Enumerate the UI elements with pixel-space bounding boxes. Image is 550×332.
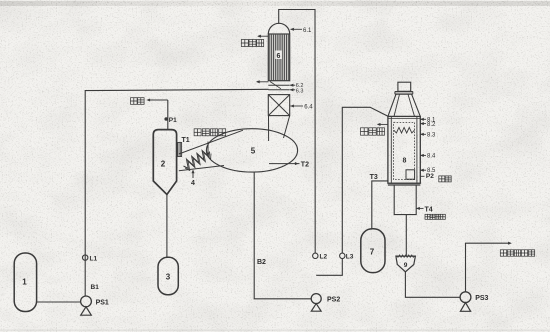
exchanger 6 bottom head bands [268,82,289,90]
tank 3 [158,257,178,294]
wire coil duct lower wall [179,166,224,171]
nozzle 8.4 pointer [420,154,436,160]
coil 4 (flexible connector) [184,150,212,170]
svg-text:2: 2 [161,160,166,169]
vessel 2 (crystallizer) [153,130,176,195]
nozzle 8.2 pointer [420,122,436,128]
wire pump PS3 outlet [466,242,512,292]
node B1 [91,284,100,291]
exchanger 6 body (tube bundle) [268,34,289,81]
wire PS1 riser and top header to exchanger 6 [85,89,268,296]
svg-text:B2: B2 [257,259,266,266]
wire vessel 8 side outlet to tank 7 [372,181,388,229]
wire vessel 2 bottom to tank 3 [166,195,168,258]
wire vessel 5 bottom to pump PS2 [254,172,311,299]
svg-text:T3: T3 [370,174,378,181]
svg-text:T2: T2 [301,161,309,168]
svg-text:P1: P1 [169,117,177,124]
svg-text:5: 5 [251,146,256,155]
svg-text:3: 3 [166,273,171,282]
valve L3 [340,253,354,260]
nozzle 6.3 [290,89,303,95]
pump PS2 [311,294,340,312]
label vacuum (top left) [131,98,145,105]
exchanger 6 dome head [268,23,289,34]
wire tank1 outlet to pump PS1 [37,301,81,303]
svg-text:8.4: 8.4 [427,154,436,160]
svg-text:7: 7 [370,248,375,257]
distributor zigzag in vessel 8 [394,127,415,133]
nozzle 6.4 pointer [291,105,314,111]
svg-text:4: 4 [191,180,195,187]
label heat transfer oil (left of 6) [241,40,263,47]
wire valve L3 down to pump PS2 [316,258,342,275]
nozzle 8.5 pointer [420,168,436,174]
nozzle 6 side outlet arrow [257,81,269,83]
svg-text:8: 8 [403,158,407,165]
svg-text:6.1: 6.1 [303,28,312,34]
mixer section 6.4 of exchanger 6 [268,95,289,116]
heat-oil nozzle of 8 [378,123,388,125]
node B2 [257,259,266,266]
nozzle 8.1 pointer [420,118,436,124]
tank 7 [361,229,385,273]
nozzle 6.2 [290,83,303,89]
label heat transfer oil (left of 8) [361,128,385,135]
svg-text:T1: T1 [182,137,190,144]
tank 1 (raw material tank) [14,253,36,312]
node P2 pointer [420,173,434,180]
granulator 9 [396,255,416,272]
svg-text:PS2: PS2 [327,296,340,303]
wire exchanger 6 vent to valve L2 [279,10,316,254]
svg-text:9: 9 [404,262,408,269]
wire condensing medium inlet arrow [207,142,209,156]
svg-text:6.3: 6.3 [296,89,304,95]
svg-text:8.3: 8.3 [427,133,436,139]
nozzle T2 [269,161,309,168]
label condensing medium (bottom right) [425,214,445,219]
vessel 8 body (jacketed) [388,116,420,183]
wire vessel 8 skirt down to granulator 9 [405,215,407,256]
svg-text:PS1: PS1 [96,299,109,306]
internal pipe 8.5 box [406,170,415,179]
vessel 8 bottom flange [388,183,420,186]
svg-text:6: 6 [276,53,280,60]
vessel 8 bottom skirt [394,185,416,215]
vessel 8 cone neck [388,94,420,116]
label vacuum (right of P2) [439,176,451,182]
svg-text:T4: T4 [425,206,433,213]
pump PS1 [81,296,109,315]
wire coil duct upper wall [179,130,243,154]
nozzle T4 pointer [416,206,433,213]
valve L1 [83,255,98,262]
pump PS3 [460,292,488,311]
vessel 5 (horizontal reactor) [206,129,297,172]
label condensing medium (top) [194,129,226,136]
heat-transfer-oil nozzle of 6 [258,35,268,37]
label conveying and granulation [500,250,534,256]
nozzle 6.1 [291,28,313,34]
svg-text:L2: L2 [320,253,328,260]
wire exchanger 6 outlet into vessel 5 [269,116,290,141]
svg-text:L1: L1 [90,255,98,262]
label 4 pointer [191,170,195,187]
wire valve L3 branch to vessel 8 shoulder [342,107,388,253]
svg-text:PS3: PS3 [475,295,488,302]
svg-text:B1: B1 [91,284,100,291]
nozzle T1 block [177,137,190,156]
svg-text:P2: P2 [426,173,434,180]
nozzle T3 label [370,174,378,181]
valve L2 [313,253,328,260]
svg-text:L3: L3 [346,253,354,260]
svg-text:8.2: 8.2 [427,122,436,128]
vessel 8 top cap [398,82,411,91]
vessel 8 flange [395,92,413,95]
svg-text:6.4: 6.4 [304,105,313,111]
wire vessel 2 vent [147,99,168,129]
wire granulator 9 to pump PS3 [405,272,459,298]
node P1 [165,117,177,124]
svg-text:1: 1 [22,277,27,286]
nozzle 8.3 pointer [420,133,436,139]
